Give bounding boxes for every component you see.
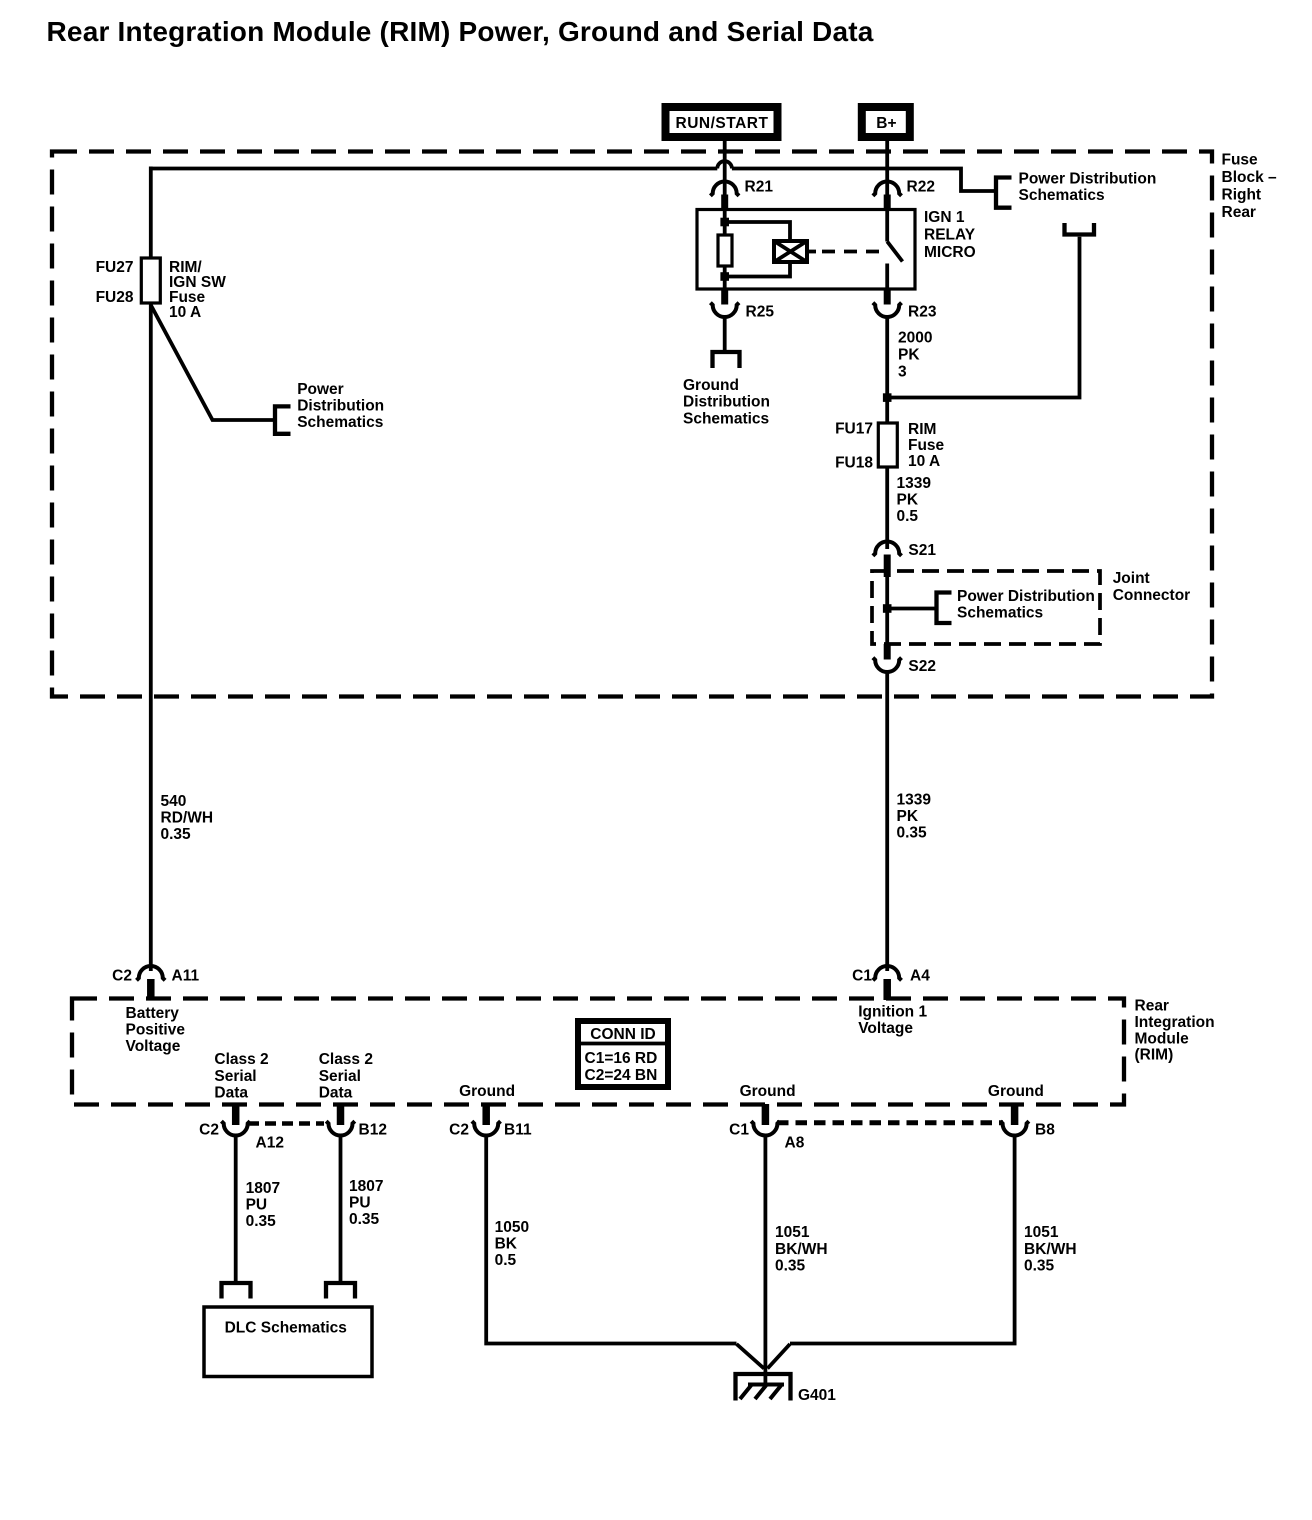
- svg-text:1051: 1051: [775, 1224, 810, 1241]
- svg-text:Ignition 1: Ignition 1: [858, 1004, 927, 1021]
- svg-text:PU: PU: [246, 1196, 268, 1213]
- connector C2-A11: [137, 966, 166, 980]
- wire B+ drop: [885, 141, 889, 196]
- svg-text:G401: G401: [798, 1387, 836, 1404]
- dashed connector link A12-B12: [248, 1121, 324, 1126]
- svg-text:1807: 1807: [246, 1180, 280, 1197]
- svg-text:Class 2: Class 2: [214, 1051, 268, 1068]
- fuse block - right rear enclosure: [52, 152, 1212, 697]
- wire relay coil bottom: [723, 266, 727, 289]
- svg-text:0.35: 0.35: [349, 1211, 380, 1228]
- svg-text:IGN 1: IGN 1: [924, 209, 965, 226]
- svg-text:A12: A12: [256, 1135, 284, 1152]
- svg-text:Schematics: Schematics: [297, 414, 383, 431]
- svg-text:Rear: Rear: [1222, 204, 1256, 221]
- wire drop to FU27: [149, 167, 153, 259]
- svg-text:2000: 2000: [898, 330, 932, 347]
- pin stub C2-B11: [482, 1104, 490, 1125]
- svg-text:540: 540: [161, 793, 187, 810]
- svg-text:B12: B12: [359, 1122, 387, 1139]
- bracket power distribution schematics (left): [275, 406, 291, 433]
- pin stub C2-A12: [232, 1104, 240, 1125]
- svg-text:RUN/START: RUN/START: [676, 115, 769, 132]
- svg-text:10 A: 10 A: [169, 304, 201, 321]
- wire FU27 down to RIM A11: [149, 303, 153, 971]
- wire coil bypass to solenoid box: [725, 222, 790, 277]
- svg-text:S22: S22: [908, 658, 936, 675]
- connector R25: [710, 303, 739, 317]
- pin stub R25: [721, 289, 728, 305]
- wire 1807 PU 0.35 (A12): [234, 1135, 238, 1281]
- svg-text:10 A: 10 A: [908, 453, 940, 470]
- svg-text:BK/WH: BK/WH: [775, 1241, 828, 1258]
- pin stub A11: [147, 979, 155, 1000]
- svg-text:0.35: 0.35: [1024, 1258, 1055, 1275]
- rear integration module enclosure: [72, 999, 1124, 1105]
- connector C2-A12: [221, 1121, 250, 1135]
- DLC Schematics box: [204, 1307, 372, 1377]
- svg-text:Data: Data: [319, 1085, 353, 1102]
- pin stub C1-A8: [762, 1104, 770, 1125]
- svg-text:Fuse: Fuse: [908, 437, 945, 454]
- svg-text:Connector: Connector: [1113, 587, 1191, 604]
- svg-text:3: 3: [898, 364, 907, 381]
- wire funnel left: [737, 1344, 765, 1369]
- junction joint connector: [883, 604, 892, 613]
- svg-text:Power Distribution: Power Distribution: [1019, 171, 1157, 188]
- svg-text:BK/WH: BK/WH: [1024, 1241, 1077, 1258]
- svg-text:B8: B8: [1035, 1122, 1055, 1139]
- dlc symbol (A12): [222, 1283, 251, 1299]
- dashed actuation link: [822, 250, 880, 254]
- connector S21: [873, 542, 902, 556]
- svg-text:CONN ID: CONN ID: [590, 1026, 655, 1043]
- wire funnel right: [768, 1344, 791, 1369]
- connector R22: [873, 182, 902, 196]
- svg-text:Joint: Joint: [1113, 570, 1150, 587]
- pin stub A4: [883, 979, 891, 1000]
- svg-text:S21: S21: [908, 542, 936, 559]
- relay IGN 1 RELAY MICRO box: [697, 210, 915, 290]
- svg-text:A11: A11: [172, 968, 200, 985]
- connector R21: [710, 182, 739, 196]
- svg-text:RD/WH: RD/WH: [161, 809, 214, 826]
- svg-text:FU17: FU17: [835, 421, 873, 438]
- svg-text:1339: 1339: [897, 792, 932, 809]
- fuse FU27/FU28 RIM/IGN SW 10A: [141, 258, 160, 303]
- svg-text:Class 2: Class 2: [319, 1051, 373, 1068]
- wire main B+ feed horizontal: [151, 169, 994, 192]
- wire 1807 PU 0.35 (B12): [339, 1135, 343, 1281]
- svg-text:Ground: Ground: [683, 377, 739, 394]
- svg-text:C2: C2: [199, 1122, 219, 1139]
- svg-text:PU: PU: [349, 1194, 371, 1211]
- pin stub S21: [884, 555, 891, 578]
- connector S22: [873, 658, 902, 672]
- pin stub B8: [1011, 1104, 1019, 1125]
- svg-text:1051: 1051: [1024, 1224, 1059, 1241]
- svg-text:Module: Module: [1135, 1030, 1190, 1047]
- ground G401: [736, 1374, 791, 1401]
- svg-text:Rear Integration Module (RIM): Rear Integration Module (RIM) Power, Gro…: [47, 16, 874, 47]
- joint connector enclosure: [872, 571, 1100, 644]
- wire 1051 BK/WH 0.35 (A8): [764, 1135, 768, 1385]
- svg-text:Block –: Block –: [1222, 169, 1278, 186]
- svg-text:Data: Data: [214, 1085, 248, 1102]
- svg-text:A4: A4: [910, 968, 930, 985]
- svg-text:C1: C1: [729, 1122, 749, 1139]
- svg-text:Power: Power: [297, 381, 344, 398]
- svg-text:R22: R22: [907, 179, 935, 196]
- fuse FU17/FU18 RIM 10A: [878, 423, 897, 467]
- svg-text:Power Distribution: Power Distribution: [957, 588, 1095, 605]
- svg-text:0.35: 0.35: [161, 826, 192, 843]
- connector C1-A8: [751, 1121, 780, 1135]
- bracket power distribution schematics (top right): [996, 178, 1012, 208]
- wire solenoid lead: [807, 250, 816, 254]
- connector C2-B11: [472, 1121, 501, 1135]
- svg-text:Voltage: Voltage: [858, 1020, 913, 1037]
- svg-text:Battery: Battery: [126, 1005, 180, 1022]
- wire relay coil top: [723, 210, 727, 236]
- svg-text:PK: PK: [897, 808, 919, 825]
- wire 1050 BK 0.5 (B11): [486, 1135, 736, 1344]
- svg-text:C2: C2: [112, 968, 132, 985]
- pin stub R23: [884, 289, 891, 305]
- svg-text:C1=16 RD: C1=16 RD: [585, 1050, 658, 1067]
- bracket power distribution schematics (joint): [937, 593, 952, 624]
- node RUN/START: [666, 107, 778, 137]
- svg-text:(RIM): (RIM): [1135, 1047, 1174, 1064]
- dlc symbol (B12): [326, 1283, 355, 1299]
- svg-text:0.35: 0.35: [775, 1258, 806, 1275]
- svg-text:Ground: Ground: [988, 1083, 1044, 1100]
- junction coil bottom: [720, 272, 729, 281]
- connector C1-A4: [873, 966, 902, 980]
- ground distribution symbol: [713, 352, 740, 368]
- pin stub R21: [721, 195, 728, 211]
- svg-text:Serial: Serial: [214, 1068, 256, 1085]
- svg-text:Schematics: Schematics: [1019, 187, 1105, 204]
- svg-text:1807: 1807: [349, 1178, 383, 1195]
- svg-text:C1: C1: [852, 968, 872, 985]
- svg-text:PK: PK: [897, 492, 919, 509]
- svg-text:BK: BK: [495, 1235, 518, 1252]
- wire 1339 PK 0.35: [885, 672, 889, 972]
- svg-text:Serial: Serial: [319, 1068, 361, 1085]
- pin stub R22: [884, 195, 891, 211]
- connector B8: [1000, 1121, 1029, 1135]
- relay solenoid element: [774, 241, 807, 262]
- svg-text:Distribution: Distribution: [683, 394, 770, 411]
- svg-text:0.35: 0.35: [246, 1213, 277, 1230]
- relay coil: [718, 235, 732, 266]
- pin stub S22: [884, 644, 891, 660]
- svg-text:Positive: Positive: [126, 1022, 186, 1039]
- dashed connector link A8-B8: [777, 1120, 1003, 1125]
- svg-text:Fuse: Fuse: [1222, 152, 1259, 169]
- svg-text:B+: B+: [876, 115, 896, 132]
- svg-text:1339: 1339: [897, 475, 932, 492]
- svg-text:FU28: FU28: [96, 289, 134, 306]
- wire off-page to R23 node: [887, 237, 1079, 398]
- connector B12: [326, 1121, 355, 1135]
- svg-text:R21: R21: [745, 179, 774, 196]
- svg-text:FU27: FU27: [96, 259, 134, 276]
- wire 1339 PK 0.5: [885, 467, 889, 549]
- svg-text:R23: R23: [908, 304, 937, 321]
- junction at R23/2000PK wire: [883, 393, 892, 402]
- svg-text:1050: 1050: [495, 1219, 529, 1236]
- svg-text:DLC Schematics: DLC Schematics: [225, 1320, 347, 1337]
- svg-text:FU18: FU18: [835, 455, 873, 472]
- wire R25 down: [723, 317, 727, 351]
- svg-text:C2: C2: [449, 1122, 469, 1139]
- conn id table: [578, 1021, 668, 1087]
- svg-text:B11: B11: [504, 1122, 532, 1139]
- svg-text:Rear: Rear: [1135, 998, 1169, 1015]
- node B+: [862, 107, 910, 137]
- svg-text:Integration: Integration: [1135, 1014, 1215, 1031]
- junction coil top: [720, 218, 729, 227]
- connector R23: [873, 303, 902, 317]
- wire 1051 BK/WH 0.35 (B8): [790, 1135, 1015, 1344]
- svg-text:Ground: Ground: [459, 1083, 515, 1100]
- svg-text:Ground: Ground: [740, 1083, 796, 1100]
- svg-text:PK: PK: [898, 347, 920, 364]
- svg-text:Voltage: Voltage: [126, 1038, 181, 1055]
- svg-text:0.35: 0.35: [897, 824, 928, 841]
- pin stub B12: [337, 1104, 345, 1125]
- svg-text:RIM: RIM: [908, 421, 936, 438]
- wire 2000 PK 3: [885, 317, 889, 423]
- svg-text:Schematics: Schematics: [683, 410, 769, 427]
- wire hop over RUN/START drop: [717, 161, 732, 168]
- svg-text:C2=24 BN: C2=24 BN: [585, 1067, 658, 1084]
- svg-text:RELAY: RELAY: [924, 227, 976, 244]
- svg-text:Distribution: Distribution: [297, 398, 384, 415]
- svg-text:Right: Right: [1222, 187, 1262, 204]
- svg-text:0.5: 0.5: [897, 508, 919, 525]
- relay switch: [887, 210, 902, 290]
- svg-text:R25: R25: [746, 304, 775, 321]
- wire inside joint connector: [887, 577, 935, 644]
- off-page connector symbol: [1065, 223, 1095, 235]
- svg-text:MICRO: MICRO: [924, 244, 976, 261]
- wire FU27 to power distribution ref: [151, 305, 273, 420]
- svg-text:A8: A8: [785, 1135, 805, 1152]
- wire RUN/START drop: [723, 141, 727, 196]
- svg-text:Schematics: Schematics: [957, 605, 1043, 622]
- svg-text:0.5: 0.5: [495, 1252, 517, 1269]
